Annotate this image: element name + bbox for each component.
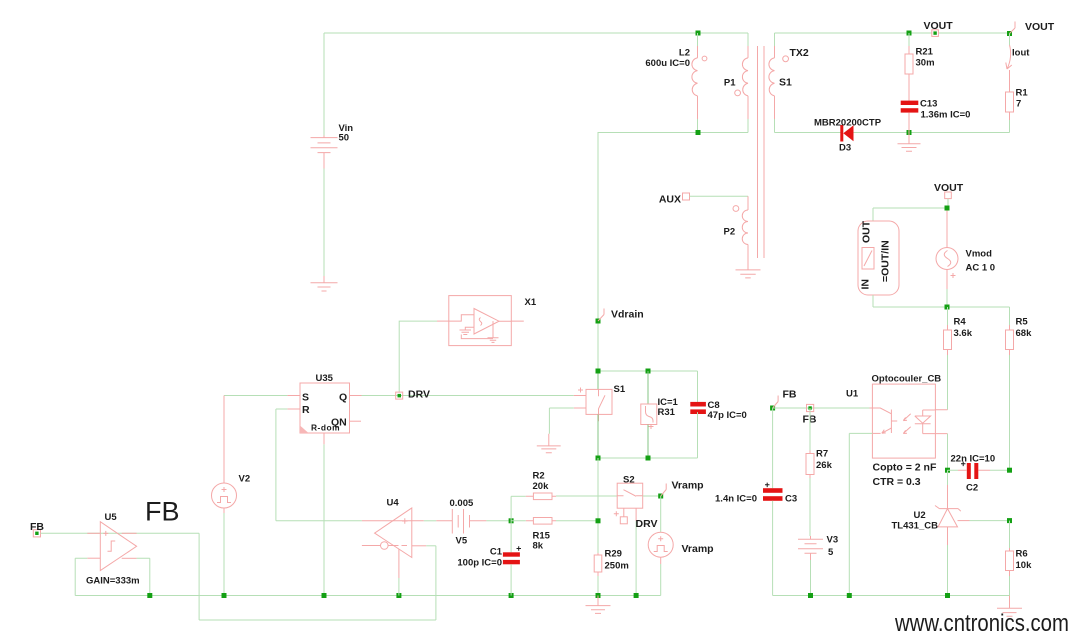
ground P2 — [736, 270, 761, 278]
node junction R15 right — [596, 518, 601, 523]
label C8 47p IC=0 — [708, 400, 747, 421]
svg-text:U1: U1 — [846, 389, 859, 400]
wire U35 Q output to DRV to S1 gate — [350, 395, 587, 397]
node Vdrain junction — [596, 319, 601, 324]
watermark www.cntronics.com — [894, 609, 1069, 636]
label GAIN=333m — [86, 576, 140, 587]
ground S1 gate — [537, 434, 561, 453]
svg-text:DRV: DRV — [408, 389, 430, 401]
nonlinear resistor R31 — [641, 371, 657, 458]
svg-text:600u IC=0: 600u IC=0 — [645, 58, 690, 69]
capacitor C8 — [690, 402, 706, 458]
label V3 5 — [827, 535, 839, 559]
port AUX — [659, 193, 690, 206]
node junction bus TL431 — [945, 593, 950, 598]
transformer primary winding P1 — [735, 33, 748, 133]
label VOUT right — [1025, 21, 1055, 33]
node junction TL431 ref — [1007, 518, 1012, 523]
resistor R4 — [944, 307, 952, 410]
wire S1 drain to R29 — [597, 458, 599, 553]
svg-text:D3: D3 — [839, 143, 851, 154]
svg-text:FB: FB — [145, 497, 180, 527]
svg-text:S2: S2 — [623, 475, 635, 486]
capacitor C3 — [763, 483, 783, 596]
node junction bus U35 — [322, 593, 327, 598]
label C1 100p IC=0 — [457, 547, 502, 569]
resistor R6 — [1006, 521, 1014, 596]
svg-text:1.36m IC=0: 1.36m IC=0 — [921, 110, 971, 121]
wire FB to U5 and down loop — [41, 533, 436, 620]
svg-text:VOUT: VOUT — [1025, 21, 1055, 33]
svg-text:R2: R2 — [533, 471, 545, 482]
svg-text:Q: Q — [339, 392, 347, 404]
node junction Iout top — [1007, 31, 1012, 36]
label Optocouler_CB — [872, 374, 942, 385]
resistor R1 — [1006, 92, 1014, 133]
wire block bottom — [873, 295, 1010, 307]
label Vramp source — [682, 543, 714, 555]
resistor R15 — [511, 518, 598, 525]
label C3 1.4n IC=0 — [715, 494, 797, 505]
comparator U5 — [87, 522, 136, 571]
port VOUT middle — [934, 182, 964, 199]
optocoupler U1 box — [872, 384, 935, 458]
wire S2 out to Vramp node — [643, 495, 661, 497]
svg-text:GAIN=333m: GAIN=333m — [86, 576, 140, 587]
node junction rail bottom left — [596, 456, 601, 461]
node junction bus opto emitter — [847, 593, 852, 598]
svg-text:S1: S1 — [779, 77, 792, 89]
voltage source Vramp — [648, 496, 673, 596]
label U2 TL431_CB — [892, 510, 939, 532]
node junction Vmod bottom — [945, 305, 950, 310]
svg-text:R4: R4 — [954, 317, 967, 328]
svg-text:R31: R31 — [658, 407, 676, 418]
wire opto emitter to bus — [849, 433, 872, 595]
node junction bus C1 — [509, 593, 514, 598]
wire U35 R input — [276, 409, 300, 521]
label IC=1 R31 — [658, 397, 679, 418]
wire Vin branch upper — [323, 33, 325, 136]
transformer aux winding P2 — [733, 196, 748, 270]
svg-text:P2: P2 — [724, 227, 736, 238]
flip-flop U35 — [300, 383, 350, 433]
resistor R2 — [511, 493, 556, 500]
svg-text:P1: P1 — [724, 78, 736, 89]
svg-text:FB: FB — [30, 521, 44, 533]
label R29 250m — [605, 549, 629, 572]
label S2 — [623, 475, 635, 486]
node junction bus R29 — [596, 593, 601, 598]
node junction bus U4 — [396, 593, 401, 598]
svg-text:22n IC=10: 22n IC=10 — [951, 454, 996, 465]
voltage source V2 — [212, 396, 237, 596]
svg-text:R7: R7 — [816, 449, 828, 460]
svg-text:R29: R29 — [605, 549, 622, 560]
transformer core TX2 — [758, 46, 765, 258]
wire C3 branch — [772, 408, 774, 488]
resistor R5 — [1006, 307, 1014, 470]
label P1 — [724, 78, 736, 89]
label R15 8k — [533, 531, 551, 552]
ground secondary — [898, 133, 921, 152]
wire secondary bottom rail — [775, 132, 1010, 134]
port FB middle — [803, 404, 817, 425]
node junction bus U5 — [147, 593, 152, 598]
node junction C2 right — [1007, 468, 1012, 473]
node FB tick — [773, 396, 779, 409]
wire bottom primary to Vdrain — [598, 133, 748, 390]
svg-text:R-dom: R-dom — [311, 423, 340, 433]
node VOUT right tick — [1010, 22, 1016, 34]
node Vramp junction — [658, 494, 663, 499]
port FB far left — [30, 521, 44, 537]
label P2 — [724, 227, 736, 238]
svg-text:10k: 10k — [1016, 560, 1033, 571]
svg-text:Vramp: Vramp — [682, 543, 714, 555]
svg-text:S: S — [302, 392, 309, 404]
wire VOUT mid node — [873, 199, 948, 221]
svg-text:AC 1 0: AC 1 0 — [966, 263, 996, 274]
wire snubber bottom rail — [598, 412, 698, 458]
voltage source V3 — [798, 536, 823, 596]
capacitor C2 — [948, 462, 1010, 479]
svg-text:R5: R5 — [1016, 317, 1029, 328]
resistor R7 — [806, 408, 814, 536]
node junction L2 bottom — [696, 130, 701, 135]
svg-text:U35: U35 — [316, 373, 334, 384]
node junction R21 top — [907, 31, 912, 36]
resistor R21 — [905, 33, 913, 101]
label Vramp node — [672, 480, 704, 492]
label U35 — [316, 373, 334, 384]
label TX2 — [790, 47, 809, 59]
node FB junction left — [770, 406, 775, 411]
svg-text:5: 5 — [828, 547, 834, 558]
comparator U4 — [362, 508, 426, 596]
svg-text:26k: 26k — [816, 460, 833, 471]
svg-text:100p IC=0: 100p IC=0 — [457, 558, 502, 569]
label Iout — [1012, 48, 1030, 59]
wire U4 plus input from U35 R — [276, 520, 362, 522]
svg-text:L2: L2 — [679, 48, 690, 59]
svg-text:IN: IN — [860, 279, 872, 290]
shunt regulator U2 TL431 — [935, 470, 1010, 595]
svg-text:=OUT/IN: =OUT/IN — [880, 240, 892, 282]
svg-text:DRV: DRV — [636, 518, 658, 530]
label L2 600u IC=0 — [645, 48, 690, 70]
wire Vin branch lower — [323, 169, 325, 277]
svg-text:Copto = 2 nF: Copto = 2 nF — [873, 462, 937, 474]
label 0.005 V5 — [450, 498, 474, 547]
label S1 secondary winding — [779, 77, 792, 89]
wire bottom bus left — [75, 595, 661, 597]
wire bottom bus right — [773, 595, 1010, 597]
inductor L2 — [692, 33, 707, 133]
svg-text:Iout: Iout — [1012, 48, 1030, 59]
svg-text:V2: V2 — [239, 474, 251, 485]
wire U35 QN stub — [350, 420, 362, 422]
resistor R29 — [594, 553, 602, 596]
svg-text:8k: 8k — [533, 541, 544, 552]
label R1 7 — [1016, 88, 1029, 110]
label DRV top — [408, 389, 430, 401]
wire U35 bottom pin to bus — [323, 433, 325, 596]
wire C1 node vertical — [510, 496, 512, 552]
svg-text:AUX: AUX — [659, 194, 681, 206]
svg-text:R: R — [302, 404, 310, 416]
wire U4 minus to FB loop — [426, 545, 436, 547]
label Vmod AC 1 0 — [966, 249, 996, 274]
svg-text:U2: U2 — [914, 510, 926, 521]
node junction L2 top — [696, 31, 701, 36]
label 22n IC=10 C2 — [951, 454, 996, 494]
port DRV bottom — [620, 517, 657, 530]
optocoupler LED — [915, 410, 948, 434]
node junction bus V3 — [808, 593, 813, 598]
label FB big — [145, 497, 180, 527]
svg-text:C3: C3 — [785, 494, 797, 505]
label U4 — [387, 498, 400, 509]
label R6 10k — [1016, 549, 1033, 572]
node junction Vmod top — [945, 206, 950, 211]
capacitor C1 — [503, 546, 521, 595]
svg-text:R1: R1 — [1016, 88, 1029, 99]
voltage source Vin — [311, 136, 338, 169]
ground Vin — [311, 276, 338, 291]
label R21 30m — [916, 47, 935, 69]
svg-text:FB: FB — [783, 389, 797, 401]
svg-text:C13: C13 — [920, 99, 937, 110]
label FB node — [783, 389, 797, 401]
node junction bus V2 — [222, 593, 227, 598]
node junction rail bottom mid — [646, 456, 651, 461]
wire secondary top rail — [775, 32, 1010, 34]
svg-text:V5: V5 — [456, 536, 468, 547]
label Copto CTR — [873, 462, 937, 489]
label S1 switch — [614, 384, 626, 395]
node junction C1 top — [509, 518, 514, 523]
label U5 — [105, 512, 118, 523]
label MBR20200CTP — [814, 118, 882, 129]
svg-text:Vmod: Vmod — [966, 249, 993, 260]
label C13 1.36m IC=0 — [920, 99, 970, 121]
wire snubber top rail — [598, 371, 698, 402]
svg-text:Vramp: Vramp — [672, 480, 704, 492]
svg-text:CTR = 0.3: CTR = 0.3 — [873, 476, 921, 488]
svg-text:50: 50 — [339, 133, 350, 144]
port DRV with junction — [396, 392, 403, 399]
svg-text:3.6k: 3.6k — [954, 328, 973, 339]
svg-text:7: 7 — [1016, 99, 1021, 110]
probe block =OUT/IN — [858, 220, 899, 295]
svg-text:68k: 68k — [1016, 328, 1033, 339]
voltage source Vmod — [936, 211, 958, 308]
svg-text:C2: C2 — [966, 483, 978, 494]
node junction rail top left — [596, 369, 601, 374]
svg-text:S1: S1 — [614, 384, 626, 395]
svg-text:0.005: 0.005 — [450, 498, 474, 509]
svg-text:Optocouler_CB: Optocouler_CB — [872, 374, 942, 385]
label R4 3.6k — [954, 317, 973, 340]
svg-text:www.cntronics.com: www.cntronics.com — [894, 609, 1069, 636]
switch S2 — [556, 483, 643, 595]
label Vin 50 — [339, 123, 354, 144]
svg-text:V3: V3 — [827, 535, 839, 546]
label R5 68k — [1016, 317, 1033, 340]
node junction bus S2 — [634, 593, 639, 598]
label R2 20k — [533, 471, 550, 493]
wire AUX to P2 — [690, 195, 749, 197]
wire FB node to optocoupler — [773, 407, 870, 409]
svg-text:R21: R21 — [916, 47, 934, 58]
svg-text:TL431_CB: TL431_CB — [892, 521, 939, 532]
label Vdrain — [611, 309, 644, 321]
label U1 — [846, 389, 859, 400]
node junction C2 left — [945, 468, 950, 473]
capacitor C13 — [901, 101, 919, 133]
svg-text:20k: 20k — [533, 481, 550, 492]
label R7 26k — [816, 449, 833, 472]
svg-text:U5: U5 — [105, 512, 118, 523]
label D3 — [839, 143, 851, 154]
label X1 — [525, 297, 537, 308]
node Vramp tick — [661, 484, 667, 497]
voltage source V5 — [452, 509, 486, 534]
wire V5 to C1 node — [486, 520, 511, 522]
comparator block X1 — [437, 296, 524, 346]
wire LED cathode down — [947, 434, 949, 471]
node Vdrain tick — [598, 309, 604, 322]
diode D3 MBR20200CTP — [840, 125, 853, 142]
svg-text:X1: X1 — [525, 297, 537, 308]
current source Iout — [1006, 34, 1012, 93]
svg-text:47p IC=0: 47p IC=0 — [708, 410, 747, 421]
wire DRV to X1 input — [399, 321, 437, 393]
svg-text:OUT: OUT — [861, 220, 873, 243]
svg-text:VOUT: VOUT — [924, 20, 954, 32]
svg-text:Vdrain: Vdrain — [611, 309, 644, 321]
optocoupler phototransistor — [870, 408, 898, 433]
svg-text:MBR20200CTP: MBR20200CTP — [814, 118, 882, 129]
optocoupler light arrows — [903, 414, 910, 434]
node junction R31 top — [646, 369, 651, 374]
port VOUT top — [924, 20, 954, 36]
node junction C13 bottom — [907, 130, 912, 135]
svg-text:R6: R6 — [1016, 549, 1028, 560]
svg-text:C1: C1 — [490, 547, 503, 558]
ground bottom right — [997, 596, 1022, 617]
label V2 — [239, 474, 251, 485]
wire U5 feedback loop — [75, 558, 150, 595]
switch S1 — [549, 371, 612, 458]
svg-text:30m: 30m — [916, 58, 935, 69]
wire U35 S input from V2 — [224, 395, 300, 397]
ground bottom left — [586, 596, 611, 614]
svg-text:VOUT: VOUT — [934, 182, 964, 194]
transformer secondary winding S1 — [769, 33, 789, 133]
svg-text:TX2: TX2 — [790, 47, 809, 59]
svg-text:U4: U4 — [387, 498, 400, 509]
wire top primary bus — [324, 32, 748, 34]
svg-text:1.4n IC=0: 1.4n IC=0 — [715, 494, 757, 505]
wire U4 plus to V5 — [412, 520, 453, 522]
svg-text:250m: 250m — [605, 561, 629, 572]
